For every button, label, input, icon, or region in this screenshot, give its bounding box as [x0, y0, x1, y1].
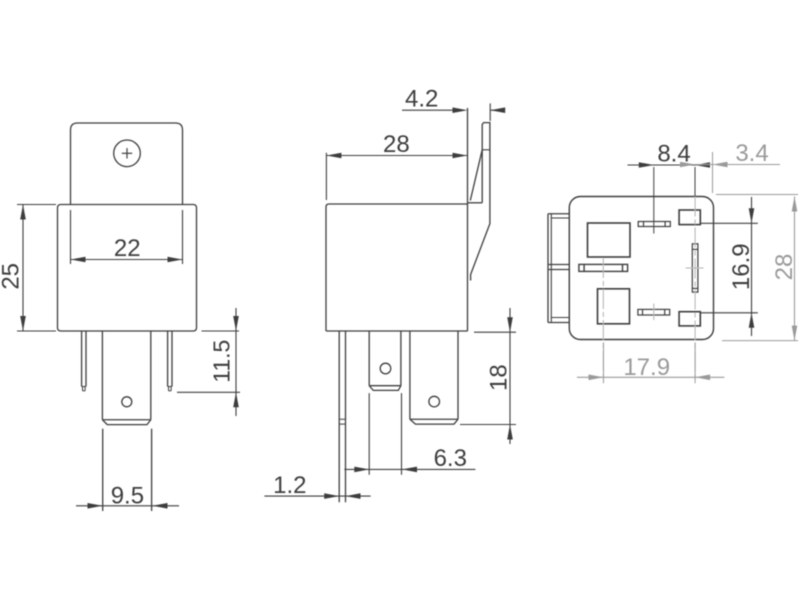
svg-text:25: 25 — [0, 263, 24, 290]
svg-text:3.4: 3.4 — [735, 140, 768, 167]
svg-text:16.9: 16.9 — [728, 243, 755, 290]
svg-text:17.9: 17.9 — [623, 354, 670, 381]
svg-text:22: 22 — [114, 235, 141, 262]
svg-text:6.3: 6.3 — [434, 445, 467, 472]
svg-text:11.5: 11.5 — [208, 340, 234, 383]
svg-text:4.2: 4.2 — [405, 85, 438, 112]
svg-text:18: 18 — [486, 364, 513, 391]
svg-text:28: 28 — [383, 131, 410, 158]
svg-text:1.2: 1.2 — [273, 472, 306, 499]
svg-text:9.5: 9.5 — [111, 483, 144, 510]
svg-text:28: 28 — [771, 254, 798, 281]
